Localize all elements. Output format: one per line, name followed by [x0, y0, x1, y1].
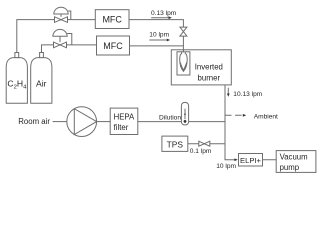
svg-text:Vacuum: Vacuum	[280, 153, 308, 162]
arrowhead into ELPI+	[234, 158, 237, 161]
gas cylinder Air	[31, 53, 52, 104]
svg-text:burner: burner	[198, 73, 221, 82]
pump P1 (circle with triangle)	[67, 107, 97, 137]
label 10.13 lpm with down arrow	[227, 88, 263, 99]
pressure regulator R1	[54, 7, 71, 22]
valve V2 (TPS line)	[199, 141, 210, 146]
svg-text:Room air: Room air	[18, 117, 50, 126]
svg-text:Dilution: Dilution	[159, 114, 181, 121]
svg-text:TPS: TPS	[167, 139, 184, 149]
svg-text:pump: pump	[280, 163, 300, 172]
svg-text:Ambient: Ambient	[254, 114, 278, 121]
svg-text:Inverted: Inverted	[195, 62, 223, 71]
HEPA filter box	[110, 108, 138, 134]
wire pump to HEPA filter	[97, 121, 111, 123]
label 10 lpm with flow arrow	[149, 31, 170, 41]
svg-text:0.1 lpm: 0.1 lpm	[190, 148, 212, 155]
wire TPS to valve and main line	[188, 143, 225, 145]
wire C2H4 cylinder to regulator R1 and MFC1	[17, 20, 184, 53]
flame	[180, 54, 188, 72]
ELPI+ box	[239, 154, 263, 167]
wire burner outlet down	[225, 85, 235, 160]
rotameter (dilution flow meter)	[181, 102, 188, 125]
inverted burner box	[171, 50, 231, 85]
wire room air to pump	[53, 121, 67, 123]
pressure regulator R2	[53, 29, 72, 47]
svg-text:10.13 lpm: 10.13 lpm	[233, 91, 262, 98]
wire valve to burner	[182, 36, 184, 52]
gas cylinder C2H4	[6, 53, 27, 104]
wire Air cylinder to regulator R2 and MFC2	[42, 45, 184, 53]
svg-text:MFC: MFC	[102, 15, 122, 25]
svg-text:10 lpm: 10 lpm	[149, 31, 169, 38]
needle valve V1 (vertical)	[180, 27, 187, 36]
svg-text:MFC: MFC	[103, 41, 123, 51]
svg-text:HEPA: HEPA	[114, 113, 135, 122]
svg-text:10 lpm: 10 lpm	[216, 163, 236, 170]
svg-text:Air: Air	[36, 79, 47, 89]
svg-text:ELPI+: ELPI+	[240, 156, 261, 165]
MFC 1	[95, 10, 129, 29]
burner tube	[177, 52, 190, 75]
vacuum pump box	[276, 151, 316, 173]
svg-text:0.13 lpm: 0.13 lpm	[151, 10, 177, 17]
svg-text:filter: filter	[114, 123, 129, 132]
wire HEPA filter to dilution junction	[138, 121, 225, 123]
TPS box	[162, 136, 188, 151]
wire dashed ambient branch	[225, 114, 242, 116]
label 0.13 lpm with flow arrow	[151, 10, 177, 19]
ambient arrowhead	[243, 114, 246, 117]
MFC 2	[97, 36, 130, 55]
wire ELPI+ to vacuum pump	[263, 159, 277, 161]
